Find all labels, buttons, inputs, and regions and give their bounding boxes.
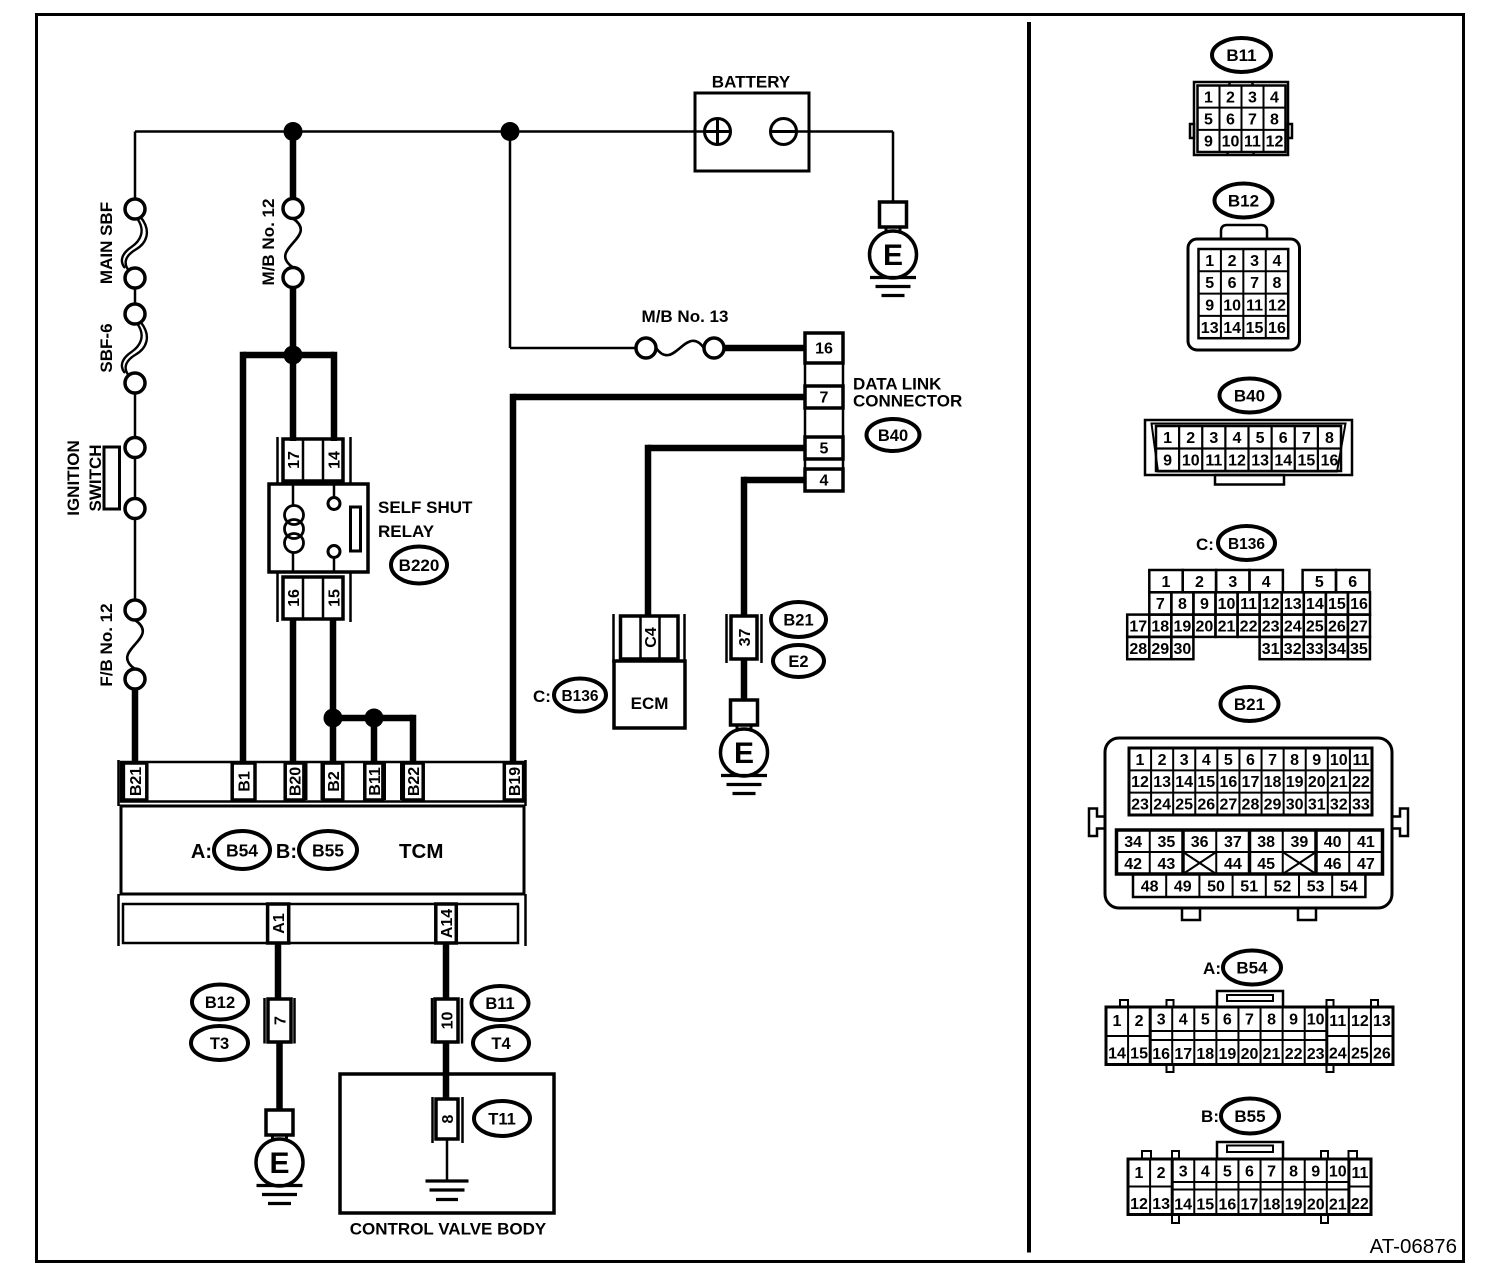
svg-text:16: 16 xyxy=(1152,1046,1170,1063)
svg-text:7: 7 xyxy=(1302,430,1311,447)
svg-text:10: 10 xyxy=(1182,453,1200,470)
svg-text:7: 7 xyxy=(1250,275,1259,292)
svg-text:12: 12 xyxy=(1266,134,1284,151)
svg-text:12: 12 xyxy=(1228,453,1246,470)
label B: with ellipse B55 xyxy=(276,831,357,869)
svg-text:13: 13 xyxy=(1373,1013,1391,1030)
DLC pin 4 cell xyxy=(805,469,843,491)
drawing number AT-06876 xyxy=(1370,1235,1457,1258)
svg-text:3: 3 xyxy=(1180,752,1189,769)
junction node B2 branch xyxy=(324,709,343,728)
svg-text:18: 18 xyxy=(1196,1046,1214,1063)
svg-text:27: 27 xyxy=(1219,797,1237,814)
ellipse T3 ref xyxy=(191,1026,248,1060)
svg-text:F/B No. 12: F/B No. 12 xyxy=(97,603,116,686)
svg-text:31: 31 xyxy=(1262,641,1280,658)
svg-text:15: 15 xyxy=(1196,1197,1214,1214)
connector B55 pinout xyxy=(1128,1142,1371,1223)
DLC pin 7 cell xyxy=(805,386,843,408)
svg-text:52: 52 xyxy=(1274,878,1292,895)
label B: ellipse B55 pinout xyxy=(1201,1099,1279,1134)
svg-text:37: 37 xyxy=(737,629,754,647)
svg-text:AT-06876: AT-06876 xyxy=(1370,1235,1457,1258)
svg-text:25: 25 xyxy=(1306,619,1324,636)
svg-text:5: 5 xyxy=(1223,1164,1232,1181)
svg-text:T11: T11 xyxy=(488,1111,516,1129)
svg-text:38: 38 xyxy=(1257,834,1275,851)
ground E battery xyxy=(870,202,917,296)
TCM bottom connector strip xyxy=(119,894,526,946)
ellipse T11 ref xyxy=(474,1101,530,1136)
wire connector 7 to ground xyxy=(276,1042,283,1111)
svg-text:26: 26 xyxy=(1373,1046,1391,1063)
fuse F/B No. 12 xyxy=(125,600,145,689)
svg-text:4: 4 xyxy=(1273,253,1282,270)
ellipse E2 ref xyxy=(773,645,824,677)
svg-text:C:: C: xyxy=(533,687,551,706)
svg-text:26: 26 xyxy=(1328,619,1346,636)
svg-text:35: 35 xyxy=(1350,641,1368,658)
svg-text:16: 16 xyxy=(1350,596,1368,613)
B136 pin numbers 1-35 xyxy=(1129,574,1368,658)
svg-text:47: 47 xyxy=(1357,856,1375,873)
svg-text:29: 29 xyxy=(1264,797,1282,814)
svg-text:11: 11 xyxy=(1205,453,1222,470)
svg-text:3: 3 xyxy=(1250,253,1259,270)
svg-text:4: 4 xyxy=(1270,89,1279,106)
svg-text:22: 22 xyxy=(1351,1196,1369,1213)
TCM body box xyxy=(121,806,524,894)
svg-text:5: 5 xyxy=(1204,111,1213,128)
junction node on bus at M/B No.12 xyxy=(284,122,303,141)
svg-text:8: 8 xyxy=(1289,1164,1298,1181)
TCM pin A14 cell xyxy=(436,904,457,943)
label SBF-6 xyxy=(97,323,116,372)
svg-text:B20: B20 xyxy=(287,767,304,796)
svg-text:B136: B136 xyxy=(561,688,598,705)
svg-text:E: E xyxy=(269,1147,289,1180)
svg-text:2: 2 xyxy=(1135,1013,1144,1030)
label SELF SHUT RELAY xyxy=(378,498,473,541)
svg-text:14: 14 xyxy=(1174,1197,1192,1214)
svg-text:17: 17 xyxy=(286,451,303,469)
svg-text:13: 13 xyxy=(1201,320,1219,337)
svg-text:1: 1 xyxy=(1163,430,1172,447)
svg-text:24: 24 xyxy=(1329,1046,1347,1063)
svg-text:7: 7 xyxy=(1245,1012,1254,1029)
svg-text:46: 46 xyxy=(1324,856,1342,873)
svg-text:7: 7 xyxy=(1268,752,1277,769)
connector 8 xyxy=(433,1097,463,1143)
battery negative terminal xyxy=(771,119,797,145)
svg-text:B:: B: xyxy=(1201,1107,1219,1126)
svg-text:14: 14 xyxy=(1175,774,1193,791)
svg-text:21: 21 xyxy=(1218,619,1236,636)
label C: ellipse B136 pinout xyxy=(1196,526,1275,560)
svg-text:B55: B55 xyxy=(312,841,344,861)
label A: with ellipse B54 xyxy=(191,831,270,869)
B40 pin numbers 1-16 xyxy=(1163,430,1338,470)
connector B54 pinout xyxy=(1106,991,1393,1072)
B11 pin numbers 1-12 xyxy=(1204,89,1283,150)
svg-text:B54: B54 xyxy=(1236,959,1268,978)
wire battery to ground xyxy=(797,132,894,203)
svg-text:21: 21 xyxy=(1263,1046,1281,1063)
connector 10 xyxy=(432,998,462,1044)
ellipse B220 xyxy=(391,547,447,584)
svg-text:5: 5 xyxy=(1224,752,1233,769)
svg-text:11: 11 xyxy=(1246,298,1263,315)
svg-text:M/B No. 12: M/B No. 12 xyxy=(259,199,278,286)
wire battery bus horizontal xyxy=(135,130,705,133)
svg-text:B220: B220 xyxy=(399,556,440,575)
svg-text:13: 13 xyxy=(1153,774,1171,791)
svg-text:7: 7 xyxy=(1267,1164,1276,1181)
ellipse B21 pinout label xyxy=(1221,687,1279,721)
fuse M/B No. 12 xyxy=(283,199,303,288)
svg-text:28: 28 xyxy=(1129,641,1147,658)
ground E TCM xyxy=(256,1110,303,1204)
ellipse B11 pinout label xyxy=(1212,38,1271,72)
ground E connector 37 xyxy=(721,700,768,794)
wire junction to TCM B11 xyxy=(371,718,378,764)
TCM top connector strip xyxy=(119,760,526,806)
svg-text:17: 17 xyxy=(1129,619,1147,636)
svg-text:6: 6 xyxy=(1245,1164,1254,1181)
svg-text:24: 24 xyxy=(1284,619,1302,636)
svg-text:16: 16 xyxy=(1219,774,1237,791)
svg-text:43: 43 xyxy=(1157,856,1175,873)
connector 37 xyxy=(727,614,762,663)
svg-text:5: 5 xyxy=(1315,574,1324,591)
svg-text:29: 29 xyxy=(1151,641,1169,658)
connector 7 xyxy=(265,998,295,1044)
wire bus to M/B No.12 fuse xyxy=(290,132,297,199)
svg-text:B:: B: xyxy=(276,841,297,863)
data link connector B40 body xyxy=(805,333,843,491)
label TCM xyxy=(399,840,443,863)
svg-text:MAIN SBF: MAIN SBF xyxy=(97,202,116,284)
label DATA LINK CONNECTOR xyxy=(853,375,962,411)
junction node B11 branch xyxy=(365,709,384,728)
svg-text:11: 11 xyxy=(1240,596,1257,613)
B21 bottom row pins 48-54 xyxy=(1133,874,1365,897)
svg-text:14: 14 xyxy=(326,451,343,469)
svg-text:35: 35 xyxy=(1157,834,1175,851)
wire between fuses xyxy=(134,288,137,305)
svg-text:15: 15 xyxy=(1328,596,1346,613)
wire junction to relay pin 14 xyxy=(331,352,338,441)
svg-text:51: 51 xyxy=(1240,878,1258,895)
svg-text:2: 2 xyxy=(1186,430,1195,447)
svg-text:23: 23 xyxy=(1307,1046,1325,1063)
wire DLC pin 7 to TCM B19 xyxy=(513,394,805,764)
svg-text:37: 37 xyxy=(1224,834,1242,851)
svg-text:6: 6 xyxy=(1226,111,1235,128)
relay coil xyxy=(285,484,304,572)
svg-text:49: 49 xyxy=(1174,878,1192,895)
svg-text:6: 6 xyxy=(1228,275,1237,292)
svg-text:E: E xyxy=(734,737,754,770)
svg-text:27: 27 xyxy=(1350,619,1368,636)
label C: B136 ellipse xyxy=(533,679,606,712)
svg-text:11: 11 xyxy=(1352,752,1369,769)
svg-text:13: 13 xyxy=(1251,453,1269,470)
svg-text:8: 8 xyxy=(1290,752,1299,769)
wire relay 15 to TCM B2 xyxy=(330,619,337,764)
svg-text:B54: B54 xyxy=(226,841,258,861)
svg-text:14: 14 xyxy=(1223,320,1241,337)
svg-text:19: 19 xyxy=(1173,619,1191,636)
svg-text:14: 14 xyxy=(1108,1046,1126,1063)
svg-text:10: 10 xyxy=(1218,596,1236,613)
wire junction to TCM B1 xyxy=(240,352,247,764)
svg-text:7: 7 xyxy=(272,1016,289,1025)
wire 37 to ground xyxy=(741,659,748,701)
svg-text:11: 11 xyxy=(1351,1165,1368,1182)
ellipse T4 ref xyxy=(473,1026,529,1060)
svg-text:SELF SHUT: SELF SHUT xyxy=(378,498,473,517)
svg-text:1: 1 xyxy=(1135,1165,1144,1182)
wire ignition switch to fuse xyxy=(134,519,137,601)
svg-text:B11: B11 xyxy=(485,995,514,1013)
svg-text:10: 10 xyxy=(1307,1012,1325,1029)
svg-text:18: 18 xyxy=(1263,1197,1281,1214)
TCM pin B19 cell xyxy=(504,763,524,800)
svg-text:8: 8 xyxy=(1270,111,1279,128)
svg-text:17: 17 xyxy=(1242,774,1260,791)
svg-text:13: 13 xyxy=(1284,596,1302,613)
svg-text:25: 25 xyxy=(1175,797,1193,814)
svg-text:12: 12 xyxy=(1268,298,1286,315)
svg-text:ECM: ECM xyxy=(631,694,669,713)
svg-text:21: 21 xyxy=(1330,774,1348,791)
ellipse B11 ref xyxy=(472,986,529,1020)
svg-text:22: 22 xyxy=(1240,619,1258,636)
label F/B No. 12 xyxy=(97,603,116,686)
svg-text:34: 34 xyxy=(1328,641,1346,658)
svg-text:T4: T4 xyxy=(491,1035,511,1053)
svg-text:53: 53 xyxy=(1307,878,1325,895)
TCM pin A1 cell xyxy=(268,904,289,943)
svg-text:B55: B55 xyxy=(1234,1107,1265,1126)
svg-text:7: 7 xyxy=(820,390,829,407)
wire DLC pin 4 to connector 37 xyxy=(744,477,805,616)
TCM pin B11 cell xyxy=(365,763,384,800)
self shut relay connector pins 16 15 xyxy=(278,573,351,622)
svg-text:B12: B12 xyxy=(1228,192,1259,211)
battery B box xyxy=(695,93,809,171)
ignition switch xyxy=(104,438,145,519)
svg-text:8: 8 xyxy=(1325,430,1334,447)
DLC pin 5 cell xyxy=(805,437,843,459)
ECM connector C4 xyxy=(614,614,685,663)
wire F/B No.12 to TCM B21 xyxy=(132,689,139,764)
svg-text:1: 1 xyxy=(1162,574,1171,591)
svg-text:A14: A14 xyxy=(439,909,456,938)
control valve body box xyxy=(340,1074,554,1213)
svg-text:TCM: TCM xyxy=(399,840,443,863)
svg-text:19: 19 xyxy=(1218,1046,1236,1063)
ellipse B12 pinout label xyxy=(1215,184,1273,218)
svg-text:10: 10 xyxy=(439,1012,456,1030)
svg-text:19: 19 xyxy=(1286,774,1304,791)
svg-text:20: 20 xyxy=(1307,1197,1325,1214)
svg-text:4: 4 xyxy=(820,473,829,490)
svg-text:31: 31 xyxy=(1308,797,1326,814)
svg-text:1: 1 xyxy=(1136,752,1145,769)
svg-text:CONTROL VALVE BODY: CONTROL VALVE BODY xyxy=(350,1220,547,1239)
svg-text:4: 4 xyxy=(1179,1012,1188,1029)
TCM pin B21 cell xyxy=(123,763,146,800)
svg-text:44: 44 xyxy=(1224,856,1242,873)
svg-text:17: 17 xyxy=(1241,1197,1259,1214)
svg-text:9: 9 xyxy=(1289,1012,1298,1029)
svg-text:11: 11 xyxy=(1244,134,1261,151)
svg-text:17: 17 xyxy=(1174,1046,1192,1063)
TCM pin B20 cell xyxy=(285,763,304,800)
svg-text:9: 9 xyxy=(1311,1164,1320,1181)
svg-text:5: 5 xyxy=(820,441,829,458)
svg-text:2: 2 xyxy=(1195,574,1204,591)
svg-text:B40: B40 xyxy=(878,427,908,445)
label IGNITION SWITCH xyxy=(64,440,105,516)
label M/B No. 12 xyxy=(259,199,278,286)
connector B12 pinout xyxy=(1188,225,1300,350)
svg-text:10: 10 xyxy=(1330,752,1348,769)
wire connector 10 to connector 8 xyxy=(443,1042,450,1100)
svg-text:54: 54 xyxy=(1340,878,1358,895)
fuse M/B No. 13 xyxy=(636,338,724,358)
svg-text:20: 20 xyxy=(1308,774,1326,791)
B12 pin numbers 1-16 xyxy=(1201,253,1286,337)
svg-text:40: 40 xyxy=(1324,834,1342,851)
label A: ellipse B54 pinout xyxy=(1203,951,1281,985)
svg-text:28: 28 xyxy=(1242,797,1260,814)
svg-text:4: 4 xyxy=(1202,752,1211,769)
svg-text:9: 9 xyxy=(1205,298,1214,315)
battery positive terminal xyxy=(705,119,731,145)
svg-text:1: 1 xyxy=(1113,1013,1122,1030)
svg-text:32: 32 xyxy=(1284,641,1302,658)
svg-text:48: 48 xyxy=(1141,878,1159,895)
wire bend to TCM B22 xyxy=(410,715,417,764)
svg-text:15: 15 xyxy=(326,589,343,607)
wire DLC pin 5 to ECM C4 xyxy=(648,445,805,616)
svg-text:M/B No. 13: M/B No. 13 xyxy=(642,307,729,326)
svg-text:10: 10 xyxy=(1222,134,1240,151)
fuse SBF-6 xyxy=(122,304,147,393)
svg-text:9: 9 xyxy=(1200,596,1209,613)
svg-text:E: E xyxy=(883,239,903,272)
B55 pin numbers 1-22 xyxy=(1130,1164,1369,1214)
svg-text:T3: T3 xyxy=(210,1035,229,1053)
svg-text:9: 9 xyxy=(1312,752,1321,769)
svg-text:2: 2 xyxy=(1226,89,1235,106)
svg-text:12: 12 xyxy=(1351,1013,1369,1030)
wire SBF-6 to ignition switch xyxy=(134,393,137,438)
svg-text:22: 22 xyxy=(1285,1046,1303,1063)
svg-text:30: 30 xyxy=(1286,797,1304,814)
battery label xyxy=(712,73,791,92)
svg-text:SWITCH: SWITCH xyxy=(86,444,105,511)
chassis ground control valve body xyxy=(426,1139,469,1200)
svg-text:B40: B40 xyxy=(1234,387,1265,406)
svg-text:36: 36 xyxy=(1191,834,1209,851)
svg-text:4: 4 xyxy=(1262,574,1271,591)
label CONTROL VALVE BODY xyxy=(350,1220,547,1239)
wire M/B No.12 fuse to junction xyxy=(290,288,297,356)
svg-text:6: 6 xyxy=(1246,752,1255,769)
svg-text:B1: B1 xyxy=(236,771,253,792)
svg-text:B21: B21 xyxy=(783,612,813,630)
svg-text:32: 32 xyxy=(1330,797,1348,814)
junction node relay feed xyxy=(284,346,303,365)
wire TCM A1 to connector 7 xyxy=(275,943,282,1000)
panel divider line xyxy=(1027,22,1031,1253)
TCM pin B1 cell xyxy=(232,763,255,800)
svg-text:12: 12 xyxy=(1130,1196,1148,1213)
svg-text:41: 41 xyxy=(1357,834,1375,851)
svg-text:20: 20 xyxy=(1241,1046,1259,1063)
svg-text:IGNITION: IGNITION xyxy=(64,440,83,516)
svg-text:6: 6 xyxy=(1223,1012,1232,1029)
svg-text:23: 23 xyxy=(1262,619,1280,636)
wire junction horizontal xyxy=(243,352,334,359)
svg-text:9: 9 xyxy=(1163,453,1172,470)
svg-text:2: 2 xyxy=(1158,752,1167,769)
svg-text:B21: B21 xyxy=(128,767,145,796)
svg-text:B22: B22 xyxy=(406,767,423,796)
ECM box xyxy=(614,661,685,728)
svg-text:B11: B11 xyxy=(367,767,384,796)
svg-text:16: 16 xyxy=(286,589,303,607)
svg-text:15: 15 xyxy=(1130,1046,1148,1063)
svg-text:33: 33 xyxy=(1306,641,1324,658)
svg-text:3: 3 xyxy=(1248,89,1257,106)
svg-text:7: 7 xyxy=(1248,111,1257,128)
svg-text:B11: B11 xyxy=(1226,46,1256,65)
svg-text:10: 10 xyxy=(1223,298,1241,315)
wire left branch upper xyxy=(134,132,137,200)
svg-text:26: 26 xyxy=(1197,797,1215,814)
svg-text:20: 20 xyxy=(1196,619,1214,636)
svg-text:39: 39 xyxy=(1290,834,1308,851)
svg-text:B2: B2 xyxy=(326,771,343,792)
svg-text:9: 9 xyxy=(1204,134,1213,151)
ellipse B21 ref xyxy=(771,602,826,637)
svg-text:3: 3 xyxy=(1209,430,1218,447)
svg-text:1: 1 xyxy=(1204,89,1213,106)
svg-text:8: 8 xyxy=(1273,275,1282,292)
svg-text:3: 3 xyxy=(1179,1164,1188,1181)
svg-text:10: 10 xyxy=(1329,1164,1347,1181)
svg-text:C:: C: xyxy=(1196,535,1214,554)
svg-text:15: 15 xyxy=(1246,320,1264,337)
svg-text:12: 12 xyxy=(1262,596,1280,613)
self shut relay connector pins 17 14 xyxy=(278,437,351,484)
ellipse B40 pinout label xyxy=(1220,379,1280,413)
svg-text:16: 16 xyxy=(815,341,833,358)
fuse MAIN SBF xyxy=(122,199,147,288)
svg-text:33: 33 xyxy=(1352,797,1370,814)
svg-text:13: 13 xyxy=(1152,1196,1170,1213)
svg-text:18: 18 xyxy=(1151,619,1169,636)
self shut relay body B220 xyxy=(269,484,368,572)
svg-text:E2: E2 xyxy=(788,653,808,671)
svg-text:15: 15 xyxy=(1297,453,1315,470)
svg-text:A1: A1 xyxy=(271,913,288,934)
